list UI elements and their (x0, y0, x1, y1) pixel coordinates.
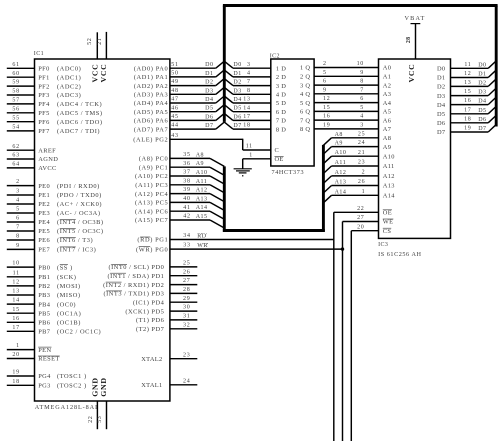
IC2 pin 13 input 5D wire, net D4 (224, 96, 286, 107)
junction dot WR-WE (341, 247, 344, 250)
svg-text:(A10) PC2: (A10) PC2 (135, 173, 168, 180)
svg-text:34: 34 (183, 233, 190, 239)
data bus D0-D7 left vertical (223, 6, 226, 122)
svg-text:PE3: PE3 (38, 210, 50, 217)
IC1 pin 19 wire and label (7, 370, 87, 381)
svg-text:(ADC2): (ADC2) (57, 83, 81, 90)
svg-text:17: 17 (12, 325, 19, 331)
svg-text:63: 63 (12, 153, 19, 159)
svg-text:VCC: VCC (407, 64, 416, 83)
svg-text:A9: A9 (383, 144, 391, 151)
IC1 value label ATMEGA128L-8AI (35, 404, 98, 411)
svg-text:(RD) PG1: (RD) PG1 (137, 237, 168, 244)
IC1 pin 10 wire and label (7, 261, 73, 272)
IC1 pin 37 (A10) PC2 wire, net A10 (135, 170, 210, 181)
IC3 pin 24 A9 wire from address bus (323, 140, 391, 154)
svg-text:(ADC4 / TCK): (ADC4 / TCK) (57, 101, 102, 108)
IC3 pin 26 A13 wire from address bus (323, 179, 394, 193)
svg-text:7: 7 (247, 79, 251, 85)
svg-text:D4: D4 (205, 97, 213, 103)
IC2 latch 74HCT373 body (271, 59, 314, 166)
svg-text:27: 27 (183, 278, 190, 284)
bus entry D5 right diagonal (488, 107, 496, 114)
svg-text:1 Q: 1 Q (300, 65, 310, 72)
svg-text:A1: A1 (383, 74, 391, 81)
svg-text:IS 61C256 AH: IS 61C256 AH (378, 251, 421, 258)
svg-text:52: 52 (87, 38, 93, 45)
IC2 pin 11 C latch enable label (275, 147, 280, 154)
svg-text:(INT4 / OC3B): (INT4 / OC3B) (57, 219, 104, 226)
svg-text:6 Q: 6 Q (300, 109, 310, 116)
svg-text:PE4: PE4 (38, 219, 50, 226)
svg-text:59: 59 (12, 80, 19, 86)
svg-text:A10: A10 (335, 150, 347, 156)
svg-text:(A13) PC5: (A13) PC5 (135, 200, 168, 207)
svg-text:54: 54 (12, 125, 19, 131)
svg-text:D2: D2 (437, 84, 445, 91)
IC1 pin 36 (A9) PC1 wire, net A9 (139, 161, 210, 172)
svg-text:11: 11 (246, 144, 253, 150)
svg-text:D0: D0 (478, 62, 486, 68)
IC1 pin 48 (AD3) PA3 wire, net D3 (134, 88, 216, 99)
svg-text:WR: WR (197, 243, 208, 249)
svg-text:PB3: PB3 (38, 292, 50, 299)
IC1 pin 3 wire and label (7, 189, 102, 200)
svg-text:44: 44 (171, 123, 178, 129)
svg-text:16: 16 (464, 98, 471, 104)
bus entry D3 right diagonal (488, 88, 496, 95)
IC1 pin 34 (RD) PG1 wire, net RD to RAM OE (137, 233, 333, 244)
svg-text:30: 30 (183, 305, 190, 311)
svg-text:(A14) PC6: (A14) PC6 (135, 208, 168, 215)
IC3 SRAM IS61C256AH body (379, 59, 451, 238)
svg-text:6: 6 (323, 79, 327, 85)
IC2 pin 15 output 6Q wire to RAM pin 5 A5 (300, 105, 391, 116)
svg-text:2 Q: 2 Q (300, 74, 310, 81)
svg-text:6: 6 (360, 96, 364, 102)
svg-text:3 Q: 3 Q (300, 82, 310, 89)
IC1 pin 35 (A8) PC0 wire, net A8 (139, 152, 210, 163)
IC1 pin 45 (AD6) PA6 wire, net D6 (134, 114, 216, 125)
IC3 pin 2 A12 wire from address bus (323, 170, 394, 184)
IC2 pin 4 input 2D wire, net D1 (224, 70, 286, 81)
svg-text:11: 11 (464, 62, 471, 68)
IC2 pin 7 input 3D wire, net D2 (224, 79, 286, 90)
svg-text:26: 26 (358, 179, 365, 185)
svg-text:IC2: IC2 (270, 54, 280, 60)
bus entry A9 left diagonal (210, 167, 224, 175)
IC1 pin 64 wire and label (7, 162, 57, 173)
svg-text:PF7: PF7 (38, 128, 50, 135)
svg-text:AVCC: AVCC (38, 165, 57, 172)
IC1 pin 61 wire and label (7, 62, 81, 73)
IC3 pin 19 D7 wire, net D7 (437, 126, 488, 137)
IC2 reference designator label (270, 54, 280, 60)
svg-text:8 D: 8 D (276, 126, 286, 133)
svg-text:2 D: 2 D (276, 74, 286, 81)
svg-text:45: 45 (171, 114, 178, 120)
svg-text:ATMEGA128L-8AI: ATMEGA128L-8AI (35, 404, 98, 411)
svg-text:D3: D3 (478, 90, 486, 96)
svg-text:10: 10 (12, 261, 19, 267)
svg-text:5: 5 (360, 105, 364, 111)
IC3 pin 16 D4 wire, net D4 (437, 98, 488, 109)
address bus right vertical (322, 145, 325, 232)
svg-text:IC3: IC3 (378, 242, 388, 248)
svg-text:19: 19 (323, 123, 330, 129)
svg-text:8 Q: 8 Q (300, 126, 310, 133)
svg-text:D5: D5 (205, 106, 213, 112)
svg-text:5: 5 (323, 70, 327, 76)
IC3 reference designator label (378, 242, 388, 248)
IC2 pin 9 output 4Q wire to RAM pin 7 A3 (300, 87, 391, 98)
svg-text:8: 8 (16, 234, 20, 240)
svg-text:(A9) PC1: (A9) PC1 (139, 164, 168, 171)
svg-text:A0: A0 (383, 65, 391, 72)
IC1 pin 50 (AD1) PA1 wire, net D1 (134, 71, 216, 82)
svg-text:4 D: 4 D (276, 92, 286, 99)
svg-text:PB7: PB7 (38, 329, 51, 336)
IC1 pin 57 wire and label (7, 98, 102, 109)
svg-text:(T2) PD7: (T2) PD7 (136, 326, 165, 333)
svg-text:A8: A8 (383, 135, 391, 142)
bus entry A10 left diagonal (210, 176, 224, 184)
svg-text:PE6: PE6 (38, 237, 50, 244)
svg-text:49: 49 (171, 79, 178, 85)
svg-text:29: 29 (183, 296, 190, 302)
svg-text:35: 35 (183, 152, 190, 158)
IC1 pin 23 XTAL2 stub wire (141, 352, 197, 363)
svg-text:19: 19 (464, 126, 471, 132)
bus entry D4 left diagonal (216, 96, 225, 103)
svg-text:(INT2 / RXD1) PD2: (INT2 / RXD1) PD2 (103, 282, 164, 289)
svg-text:(INT0 / SCL) PD0: (INT0 / SCL) PD0 (109, 264, 165, 271)
svg-text:3: 3 (247, 62, 251, 68)
IC2 pin 17 input 7D wire, net D6 (224, 113, 286, 124)
svg-text:(AC+ / XCK0): (AC+ / XCK0) (57, 201, 102, 208)
svg-text:25: 25 (183, 261, 190, 267)
svg-text:(MOSI): (MOSI) (57, 283, 81, 290)
svg-text:6: 6 (16, 216, 20, 222)
svg-text:33: 33 (183, 243, 190, 249)
IC1 pin 24 XTAL1 stub wire (141, 378, 197, 389)
svg-text:19: 19 (12, 370, 19, 376)
svg-text:VBAT: VBAT (405, 15, 426, 22)
IC3 VCC label (407, 64, 416, 83)
svg-text:(TOSC2 ): (TOSC2 ) (57, 383, 87, 390)
svg-text:XTAL1: XTAL1 (141, 382, 162, 389)
bus entry A12 left diagonal (210, 194, 224, 202)
svg-text:41: 41 (183, 205, 190, 211)
IC1 pin 12 wire and label (7, 280, 81, 291)
svg-text:(OC2 / OC1C): (OC2 / OC1C) (57, 329, 101, 336)
svg-text:A15: A15 (196, 214, 208, 220)
svg-text:23: 23 (183, 352, 190, 358)
svg-text:A13: A13 (196, 196, 208, 202)
svg-text:PF3: PF3 (38, 92, 50, 99)
IC1 pin 58 wire and label (7, 89, 81, 100)
IC2 pin 6 output 3Q wire to RAM pin 8 A2 (300, 79, 391, 90)
svg-text:8: 8 (247, 88, 251, 94)
bus entry D0 left diagonal (216, 61, 225, 68)
IC1 pin 55 wire and label (7, 115, 103, 126)
ground symbol (234, 169, 252, 176)
IC1 pin 16 wire and label (7, 316, 81, 327)
svg-text:D0: D0 (205, 62, 213, 68)
svg-text:5 D: 5 D (276, 100, 286, 107)
svg-text:21: 21 (358, 150, 365, 156)
svg-text:PF2: PF2 (38, 83, 50, 90)
IC1 pin 56 wire and label (7, 106, 103, 117)
svg-text:C: C (275, 147, 280, 154)
svg-text:3: 3 (16, 189, 20, 195)
svg-text:1: 1 (362, 189, 366, 195)
IC1 VCC pin 21 wire (97, 32, 106, 59)
svg-text:24: 24 (183, 378, 190, 384)
IC1 GND pin 53 wire (97, 401, 107, 429)
svg-text:A6: A6 (383, 117, 391, 124)
IC3 pin 18 D6 wire, net D6 (437, 116, 488, 127)
svg-text:(PDO / TXD0): (PDO / TXD0) (57, 192, 102, 199)
IC1 pin 18 wire and label (7, 379, 87, 390)
svg-text:18: 18 (12, 379, 19, 385)
svg-text:A14: A14 (383, 193, 395, 200)
IC1 pin 60 wire and label (7, 71, 81, 82)
svg-text:A5: A5 (383, 109, 391, 116)
svg-text:36: 36 (183, 161, 190, 167)
IC1 microcontroller ATMEGA128L-8AI body (35, 59, 170, 401)
svg-text:55: 55 (12, 115, 19, 121)
svg-text:61: 61 (12, 62, 19, 68)
svg-text:(A8) PC0: (A8) PC0 (139, 156, 168, 163)
svg-text:PF0: PF0 (38, 66, 50, 73)
svg-text:OE: OE (383, 210, 392, 217)
bus entry D3 left diagonal (216, 87, 225, 94)
svg-text:(AC- / OC3A): (AC- / OC3A) (57, 210, 101, 217)
IC1 pin 15 wire and label (7, 307, 81, 318)
svg-text:4: 4 (247, 71, 251, 77)
svg-text:D7: D7 (478, 126, 486, 132)
svg-text:PB2: PB2 (38, 283, 50, 290)
IC3 pin 13 D2 wire, net D2 (437, 80, 488, 91)
IC2 pin 5 output 2Q wire to RAM pin 9 A1 (300, 70, 391, 81)
bus entry A14 left diagonal (210, 211, 224, 219)
svg-text:D6: D6 (478, 117, 486, 123)
IC1 pin 26 PD1 stub wire (107, 269, 197, 280)
svg-text:(A15) PC7: (A15) PC7 (135, 217, 168, 224)
svg-text:15: 15 (464, 89, 471, 95)
svg-text:A12: A12 (383, 173, 395, 180)
svg-text:D7: D7 (233, 123, 241, 129)
IC1 pin 51 (AD0) PA0 wire, net D0 (134, 62, 216, 73)
bus entry D1 left diagonal (216, 70, 225, 77)
svg-text:9: 9 (360, 70, 364, 76)
svg-text:(INT1 / SDA) PD1: (INT1 / SDA) PD1 (107, 273, 164, 280)
IC3 pin 11 D0 wire, net D0 (437, 62, 488, 73)
svg-text:RESET: RESET (38, 356, 60, 363)
svg-text:7 Q: 7 Q (300, 117, 310, 124)
svg-text:PEN: PEN (38, 347, 51, 354)
svg-text:(AD5) PA5: (AD5) PA5 (134, 109, 168, 116)
svg-text:(ADC1): (ADC1) (57, 74, 81, 81)
IC1 pin 9 wire and label (7, 243, 96, 254)
svg-text:58: 58 (12, 89, 19, 95)
svg-text:AREF: AREF (38, 147, 56, 154)
IC1 VCC label first (91, 64, 100, 83)
svg-text:A13: A13 (383, 183, 395, 190)
bus entry D7 left diagonal (216, 122, 225, 129)
IC1 pin 17 wire and label (7, 325, 101, 336)
svg-text:D7: D7 (205, 123, 213, 129)
svg-text:1: 1 (16, 343, 20, 349)
svg-text:17: 17 (243, 114, 250, 120)
IC2 value label 74HCT373 (272, 169, 305, 176)
bus entry D2 left diagonal (216, 79, 225, 86)
svg-text:PB4: PB4 (38, 301, 51, 308)
svg-text:OE: OE (275, 156, 284, 163)
svg-text:D3: D3 (233, 88, 241, 94)
svg-text:VCC: VCC (99, 64, 108, 83)
svg-text:D1: D1 (437, 75, 445, 82)
IC1 pin 33 (WR) PG0 wire, net WR to RAM WE (136, 243, 343, 254)
svg-text:D4: D4 (437, 102, 446, 109)
IC1 pin 14 wire and label (7, 298, 76, 309)
svg-text:18: 18 (464, 116, 471, 122)
svg-text:22: 22 (357, 206, 364, 212)
svg-text:(SS ): (SS ) (57, 264, 73, 271)
svg-text:17: 17 (464, 107, 471, 113)
svg-text:31: 31 (183, 314, 190, 320)
IC3 value label IS61C256AH (378, 251, 421, 258)
svg-text:A4: A4 (383, 100, 392, 107)
svg-text:A10: A10 (383, 153, 395, 160)
IC1 pin 47 (AD4) PA4 wire, net D4 (134, 97, 216, 108)
svg-text:23: 23 (358, 160, 365, 166)
svg-text:A9: A9 (335, 141, 343, 147)
IC3 pin 25 A8 wire from address bus (323, 131, 391, 145)
svg-text:60: 60 (12, 71, 19, 77)
svg-text:(TOSC1 ): (TOSC1 ) (57, 373, 87, 380)
data bus right vertical (495, 6, 498, 127)
svg-text:46: 46 (171, 105, 178, 111)
IC2 pin 19 output 8Q wire to RAM pin 3 A7 (300, 123, 392, 134)
svg-text:14: 14 (243, 105, 250, 111)
svg-text:7: 7 (16, 225, 20, 231)
svg-text:57: 57 (12, 98, 19, 104)
svg-text:2: 2 (362, 170, 366, 176)
IC1 reference designator label (34, 51, 44, 57)
svg-text:(INT3 / TXD1) PD3: (INT3 / TXD1) PD3 (104, 291, 165, 298)
IC1 pin 5 wire and label (7, 207, 101, 218)
svg-text:A14: A14 (196, 205, 208, 211)
svg-text:D2: D2 (205, 80, 213, 86)
IC1 pin 40 (A13) PC5 wire, net A13 (135, 196, 210, 207)
IC1 pin 8 wire and label (7, 234, 93, 245)
svg-text:D6: D6 (233, 114, 241, 120)
svg-text:D4: D4 (233, 97, 241, 103)
IC2 pin 1 OE label (275, 156, 284, 163)
svg-text:A13: A13 (335, 180, 347, 186)
IC2 pin 14 input 6D wire, net D5 (224, 105, 286, 116)
svg-text:D1: D1 (205, 71, 213, 77)
svg-text:20: 20 (12, 352, 19, 358)
IC1 pin 38 (A11) PC3 wire, net A11 (135, 178, 210, 189)
svg-text:2: 2 (323, 61, 327, 67)
svg-text:43: 43 (171, 133, 178, 139)
svg-text:8: 8 (360, 79, 364, 85)
svg-text:28: 28 (406, 36, 412, 43)
IC1 pin 54 wire and label (7, 125, 100, 136)
bus entry D6 right diagonal (488, 116, 496, 123)
svg-text:27: 27 (357, 215, 364, 221)
svg-text:PG4: PG4 (38, 373, 51, 380)
address bus A8-A15 left vertical (223, 166, 226, 232)
bus entry D7 right diagonal (488, 125, 496, 132)
svg-text:12: 12 (12, 280, 19, 286)
svg-text:D1: D1 (233, 71, 241, 77)
svg-text:7 D: 7 D (276, 118, 286, 125)
svg-text:A3: A3 (383, 91, 391, 98)
IC3 pin 23 A11 wire from address bus (323, 160, 394, 174)
svg-text:(T1) PD6: (T1) PD6 (136, 317, 164, 324)
IC1 pin 63 wire and label (7, 153, 58, 164)
bus entry A15 left diagonal (210, 220, 224, 228)
svg-text:(ADC6 / TDO): (ADC6 / TDO) (57, 119, 103, 126)
svg-text:7: 7 (360, 87, 364, 93)
bus entry A13 left diagonal (210, 202, 224, 210)
IC1 GND label first (91, 377, 100, 396)
svg-text:5: 5 (16, 207, 20, 213)
svg-text:13: 13 (243, 97, 250, 103)
svg-text:20: 20 (357, 224, 364, 230)
svg-text:21: 21 (97, 38, 103, 45)
IC1 GND pin 22 wire (88, 401, 98, 429)
svg-text:(AD4) PA4: (AD4) PA4 (134, 100, 169, 107)
svg-text:PB6: PB6 (38, 320, 50, 327)
svg-text:56: 56 (12, 106, 19, 112)
svg-text:18: 18 (243, 123, 250, 129)
svg-text:D3: D3 (437, 93, 445, 100)
IC1 pin 28 PD3 stub wire (104, 287, 198, 298)
IC1 pin 27 PD2 stub wire (103, 278, 197, 289)
svg-text:A7: A7 (383, 126, 392, 133)
svg-text:(AD0) PA0: (AD0) PA0 (134, 65, 168, 72)
svg-text:PE2: PE2 (38, 201, 50, 208)
svg-text:62: 62 (12, 144, 19, 150)
address bus bottom horizontal (223, 229, 325, 232)
svg-text:(OC1B): (OC1B) (57, 320, 81, 327)
IC3 pin 20 CS wire going off page (351, 224, 391, 441)
IC1 pin 59 wire and label (7, 80, 81, 91)
svg-text:(AD3) PA3: (AD3) PA3 (134, 92, 168, 99)
svg-text:3 D: 3 D (276, 83, 286, 90)
svg-text:(A12) PC4: (A12) PC4 (135, 191, 168, 198)
IC1 pin 31 PD6 stub wire (136, 314, 197, 325)
svg-text:(IC1) PD4: (IC1) PD4 (133, 299, 165, 306)
IC1 pin 6 wire and label (7, 216, 104, 227)
IC2 pin 18 input 8D wire, net D7 (224, 122, 286, 133)
svg-text:PG3: PG3 (38, 383, 51, 390)
svg-text:4: 4 (360, 114, 364, 120)
svg-text:(INT7 / IC3): (INT7 / IC3) (57, 247, 96, 254)
svg-text:5 Q: 5 Q (300, 100, 310, 107)
svg-text:(ALE) PG2: (ALE) PG2 (133, 137, 168, 144)
svg-text:(INT6 / T3): (INT6 / T3) (57, 237, 93, 244)
IC1 pin 42 (A15) PC7 wire, net A15 (135, 214, 210, 225)
svg-text:15: 15 (12, 307, 19, 313)
IC1 VCC pin 52 wire (87, 32, 97, 59)
svg-text:12: 12 (323, 96, 330, 102)
